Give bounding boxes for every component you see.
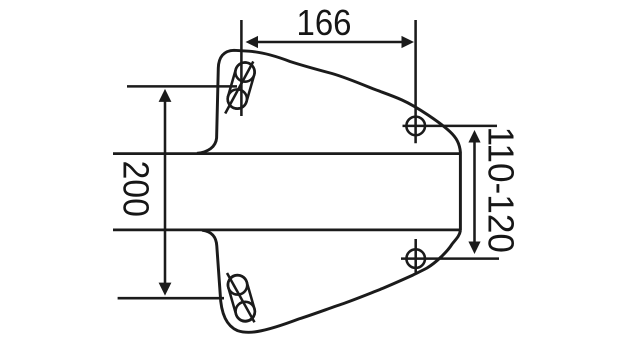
bracket plate outline: top wing: [197, 50, 460, 153]
dim 166: dimension line: [255, 41, 405, 44]
dim 200: top extension line: [127, 85, 237, 88]
bracket plate outline: bottom wing: [202, 230, 460, 332]
dim 166: right arrowhead: [402, 36, 415, 48]
channel right edge: [459, 152, 462, 231]
dim 200: bottom arrowhead: [159, 283, 172, 296]
slotted hole bottom-left: upper circle: [228, 275, 247, 294]
dim 200: bottom extension line: [118, 297, 224, 300]
hole top-right horizontal centerline / ext line 110-120 top: [403, 125, 498, 128]
dim 166: left arrowhead: [246, 36, 259, 48]
dim 166: left extension line: [240, 20, 243, 116]
dim 200: top arrowhead: [159, 89, 172, 102]
hole bottom-right vertical centerline: [414, 239, 417, 273]
slotted hole bottom-left: centerline: [227, 273, 255, 322]
hole bottom-right: [406, 249, 425, 268]
svg-text:166: 166: [297, 2, 352, 43]
svg-text:110-120: 110-120: [481, 126, 522, 253]
hole top-right: [406, 117, 425, 136]
slotted hole top-left: upper circle: [235, 63, 254, 82]
slotted hole bottom-left: stadium: [226, 273, 258, 324]
channel top edge: [113, 152, 460, 155]
dim 110-120: top arrowhead: [468, 130, 480, 143]
hole bottom-right horizontal centerline / ext line 110-120 bottom: [401, 257, 499, 260]
svg-text:200: 200: [116, 160, 157, 217]
dim 110-120: bottom arrowhead: [468, 242, 480, 255]
hole top-right vertical centerline / ext line 166 right: [414, 20, 417, 143]
dim 110-120: dimension line: [473, 140, 476, 243]
slotted hole bottom-left: lower circle: [236, 302, 255, 321]
channel bottom edge: [113, 228, 460, 231]
slotted hole top-left: lower circle: [228, 89, 247, 108]
slotted hole top-left: centerline: [225, 62, 253, 114]
dim 200: dimension line: [164, 99, 167, 285]
slotted hole top-left: stadium: [225, 60, 256, 111]
